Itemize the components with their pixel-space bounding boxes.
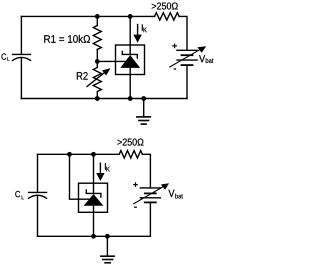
battery V_bat long plate 2 (bottom circuit) <box>140 197 160 199</box>
ground stub (top circuit) <box>143 99 145 117</box>
battery V_bat long plate 1 (bottom circuit) <box>140 187 160 189</box>
wire cathode branch (top circuit) <box>129 16 131 54</box>
battery V_bat short plate 1 (bottom circuit) <box>145 192 156 194</box>
resistor >250ohm (bottom circuit) zigzag <box>119 151 142 158</box>
label >250Ohm (bottom circuit) <box>117 139 143 146</box>
label I_K (top circuit) <box>142 24 147 32</box>
battery variability arrowhead (bottom circuit) <box>161 183 169 190</box>
wire battery lower (top circuit) <box>186 65 188 98</box>
label V_bat (bottom circuit) <box>168 190 182 199</box>
current arrow I_K head (bottom circuit) <box>96 173 104 181</box>
battery V_bat short plate 2 (top circuit) <box>182 64 193 66</box>
wire anode branch (bottom circuit) <box>93 206 95 237</box>
variable resistor R2 arrow shaft <box>87 73 105 87</box>
node junction R1/R2 reference (top circuit) <box>95 59 100 64</box>
resistor >250ohm (top circuit) zigzag <box>155 13 180 20</box>
label minus (bottom battery) <box>134 206 137 208</box>
current arrow I_K shaft (top circuit) <box>137 25 139 36</box>
battery V_bat long plate 1 (top circuit) <box>177 49 197 51</box>
resistor R2 zigzag <box>93 61 101 98</box>
shunt regulator U1 cathode bar <box>122 51 137 58</box>
capacitor C_L top plate (bottom circuit) <box>29 191 47 193</box>
label I_K (bottom circuit) <box>105 163 110 171</box>
node junction bottom rail anode (bottom circuit) <box>91 234 96 239</box>
ground bar 2 (top circuit) <box>139 120 149 122</box>
resistor R1 zigzag <box>93 26 101 50</box>
wire from resistor to battery (top right corner) <box>179 16 187 50</box>
wire left branch upper (bottom circuit) <box>37 154 39 192</box>
capacitor C_L curved plate (bottom circuit) <box>29 195 47 198</box>
battery variability arrow shaft (top circuit) <box>170 49 202 67</box>
node junction top rail R1 (top circuit) <box>95 14 100 19</box>
node junction top rail cathode (bottom circuit) <box>91 152 96 157</box>
wire bottom rail (top circuit) <box>21 98 187 100</box>
wire anode branch (top circuit) <box>129 68 131 99</box>
wire battery lower (bottom circuit) <box>149 202 151 236</box>
wire cathode branch (bottom circuit) <box>93 154 95 193</box>
variable resistor R2 arrowhead <box>102 68 111 75</box>
shunt regulator U2 cathode bar <box>86 190 101 197</box>
current arrow I_K head (top circuit) <box>133 35 141 43</box>
reference wire from rail to regulator (bottom circuit) <box>70 154 91 199</box>
capacitor C_L curved plate (top circuit) <box>13 57 31 60</box>
node junction bottom rail anode (top circuit) <box>128 96 133 101</box>
wire top rail (top circuit) <box>21 15 154 17</box>
wire R1 to R2 junction <box>96 50 98 62</box>
wire left branch upper (top circuit) <box>20 16 22 54</box>
shunt regulator U2 triangle <box>84 194 104 206</box>
ground stub (bottom circuit) <box>106 236 108 255</box>
ground bar 3 (top circuit) <box>141 123 146 125</box>
node junction bottom rail R2 (top circuit) <box>95 96 100 101</box>
label minus (top battery) <box>174 68 176 70</box>
ground bar 3 (bottom circuit) <box>105 262 110 264</box>
wire left branch lower (bottom circuit) <box>37 196 39 236</box>
node junction top rail reference (bottom circuit) <box>67 152 72 157</box>
ground bar 1 (top circuit) <box>137 116 151 118</box>
battery V_bat short plate 2 (bottom circuit) <box>145 201 156 203</box>
battery V_bat short plate 1 (top circuit) <box>182 54 193 56</box>
label V_bat (top circuit) <box>199 55 213 63</box>
wire bottom rail (bottom circuit) <box>38 235 151 237</box>
label >250Ohm (top circuit) <box>152 2 178 9</box>
shunt regulator U1 triangle <box>120 55 140 68</box>
label plus (top battery) <box>172 44 177 49</box>
label R1 = 10kOhm <box>44 35 90 43</box>
battery variability arrow shaft (bottom circuit) <box>134 186 165 204</box>
node junction bottom rail ground (bottom circuit) <box>105 234 110 239</box>
shunt regulator U2 box <box>79 183 108 212</box>
current arrow I_K shaft (bottom circuit) <box>99 163 101 173</box>
label C_L (bottom circuit) <box>15 191 23 199</box>
ground bar 1 (bottom circuit) <box>101 255 114 257</box>
wire R1 branch from rail to zigzag <box>96 16 98 25</box>
battery V_bat long plate 2 (top circuit) <box>177 59 197 61</box>
battery variability arrowhead (top circuit) <box>197 46 206 53</box>
node junction bottom rail ground (top circuit) <box>141 96 146 101</box>
ground bar 2 (bottom circuit) <box>103 259 113 261</box>
capacitor C_L top plate (top circuit) <box>13 53 31 55</box>
wire left branch lower (top circuit) <box>20 58 22 98</box>
shunt regulator U1 box <box>116 45 145 75</box>
reference wire from R1/R2 junction to regulator <box>97 60 126 62</box>
label R2 <box>77 72 88 80</box>
label plus (bottom battery) <box>133 182 138 187</box>
node junction top rail cathode (top circuit) <box>128 14 133 19</box>
wire from resistor to battery (bottom right corner) <box>142 154 150 188</box>
wire top rail (bottom circuit) <box>38 153 120 155</box>
label C_L (top circuit) <box>1 53 9 60</box>
